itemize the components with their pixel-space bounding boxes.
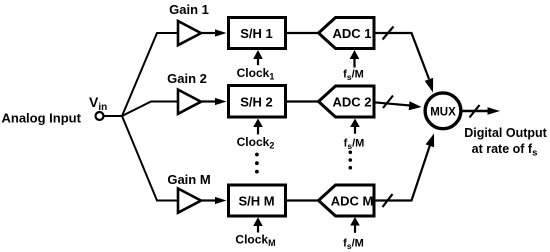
svg-text:fs/M: fs/M	[343, 238, 364, 251]
svg-text:at rate of fs: at rate of fs	[472, 142, 538, 159]
svg-text:S/H M: S/H M	[238, 194, 274, 209]
svg-text:Vin: Vin	[89, 94, 107, 113]
svg-text:S/H 2: S/H 2	[240, 95, 273, 110]
svg-text:Digital Output: Digital Output	[464, 126, 547, 140]
svg-text:ADC 2: ADC 2	[332, 95, 371, 110]
svg-text:Gain 2: Gain 2	[167, 71, 207, 86]
svg-text:ClockM: ClockM	[235, 233, 275, 249]
svg-text:fs/M: fs/M	[344, 138, 365, 151]
svg-text:ADC 1: ADC 1	[332, 26, 371, 41]
svg-text:fs/M: fs/M	[343, 69, 364, 82]
svg-text:Clock1: Clock1	[237, 66, 275, 82]
svg-text:MUX: MUX	[430, 106, 456, 118]
svg-text:S/H 1: S/H 1	[240, 26, 273, 41]
svg-text:Gain 1: Gain 1	[169, 2, 209, 17]
svg-text:Analog Input: Analog Input	[2, 111, 82, 126]
svg-text:Clock2: Clock2	[237, 135, 275, 151]
svg-text:ADC M: ADC M	[331, 194, 374, 209]
svg-text:Gain M: Gain M	[167, 172, 210, 187]
